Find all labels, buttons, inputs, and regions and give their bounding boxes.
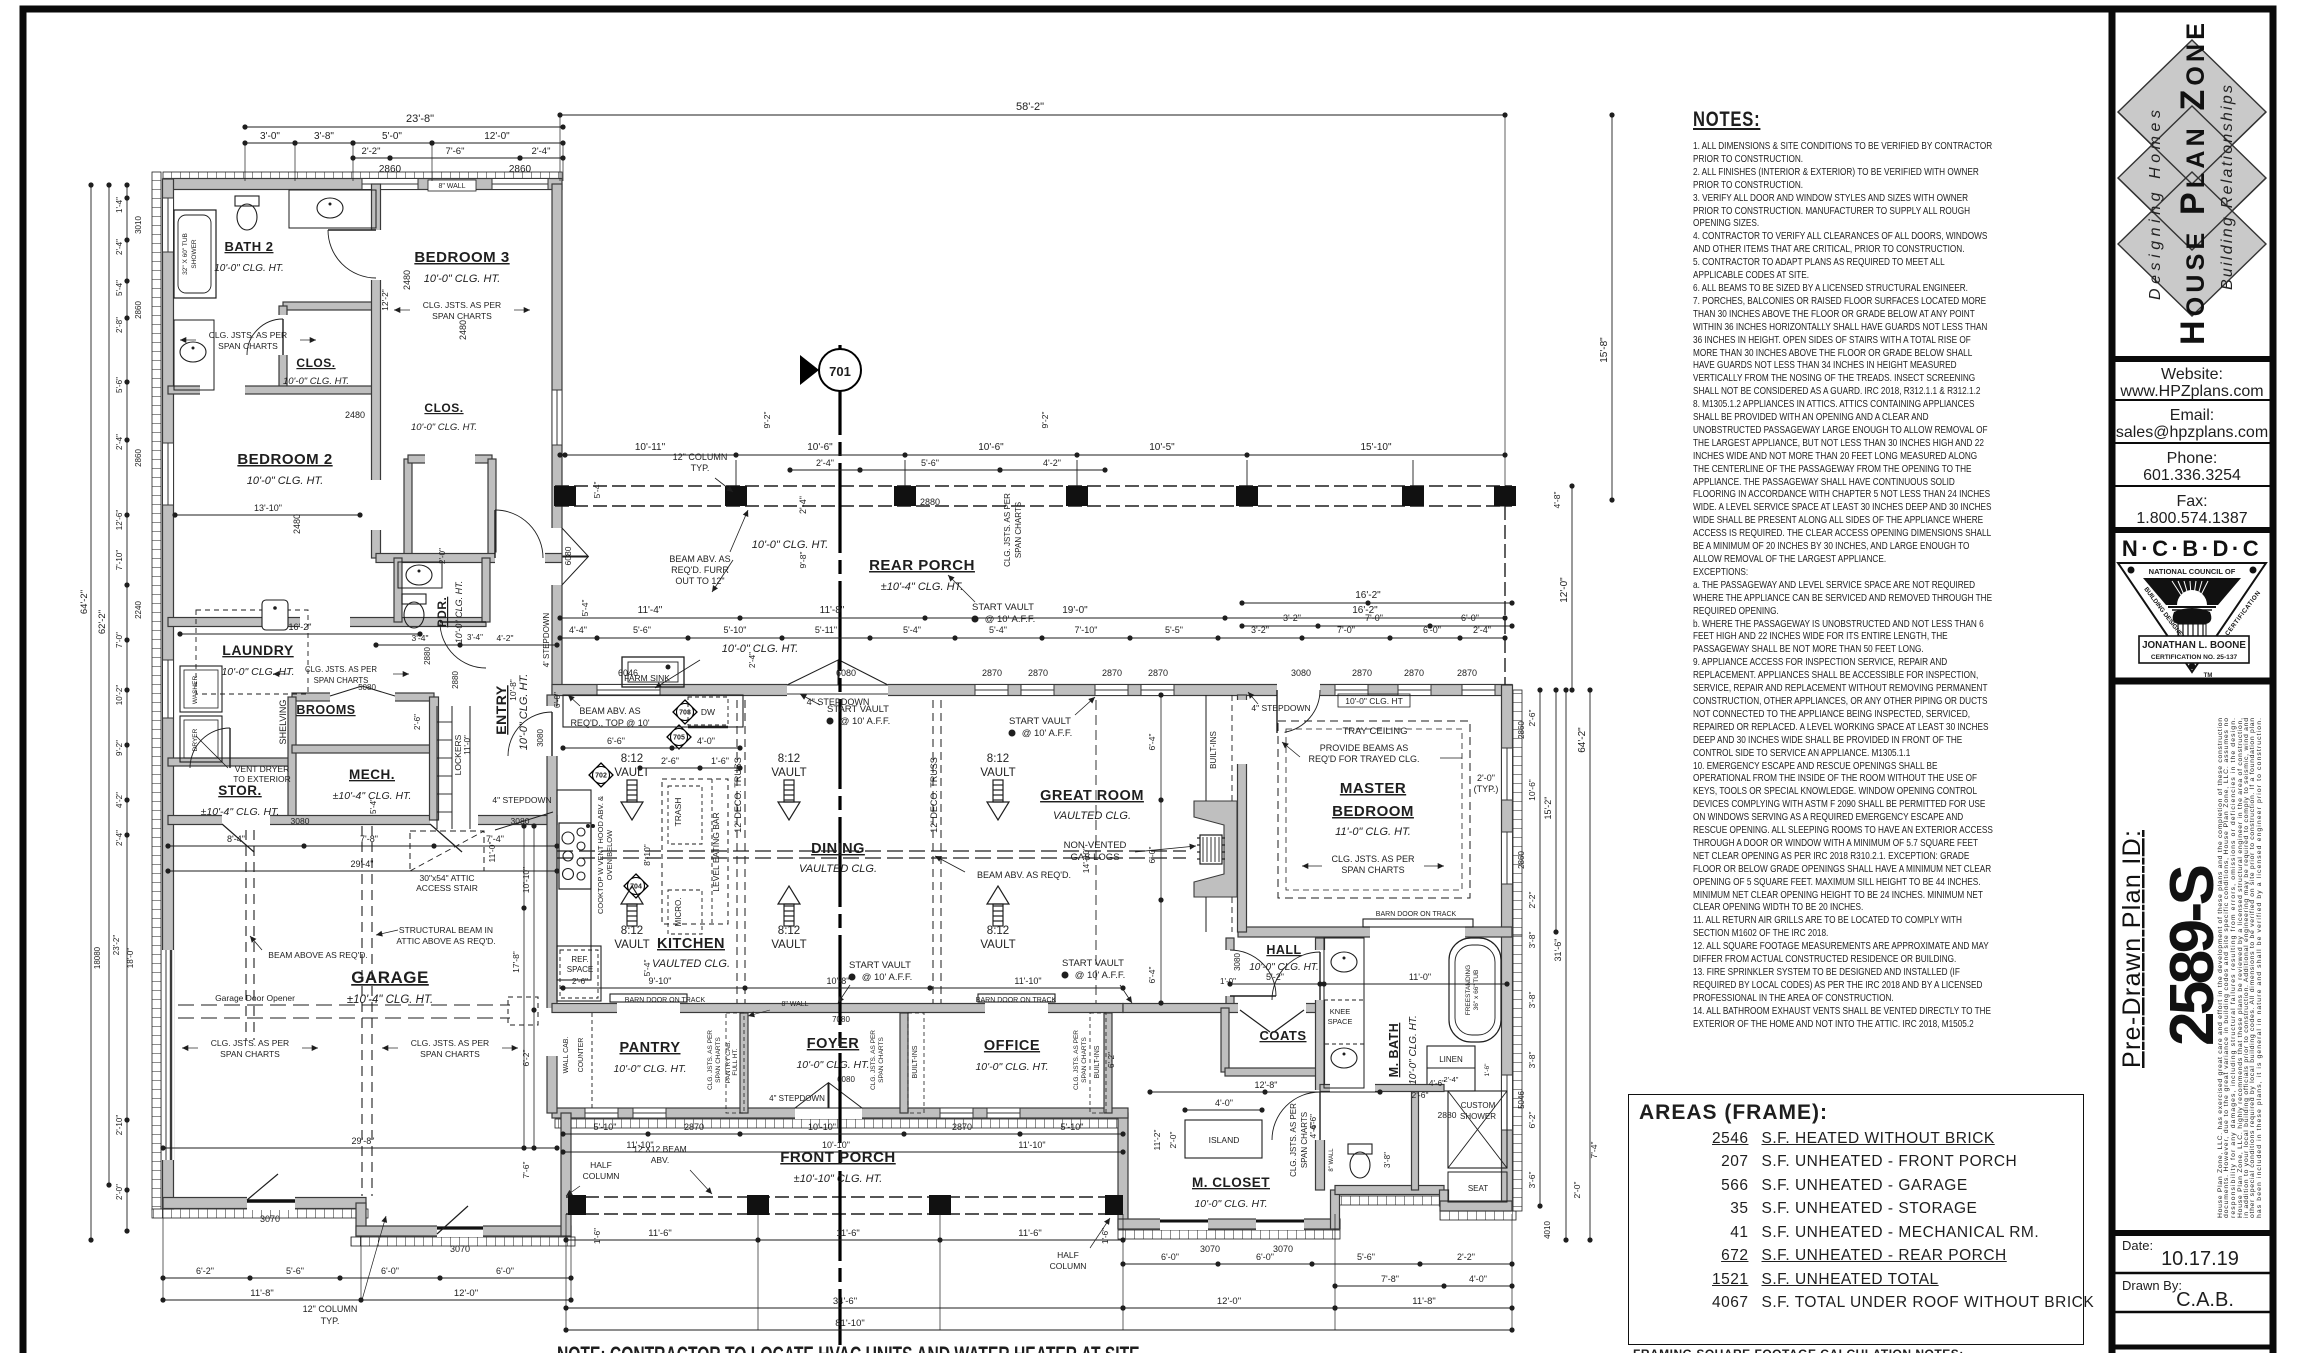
svg-text:10'-0" CLG. HT.: 10'-0" CLG. HT. (722, 643, 799, 655)
svg-text:START VAULT: START VAULT (827, 704, 889, 715)
svg-text:2860: 2860 (134, 449, 143, 467)
svg-text:7'-10": 7'-10" (115, 550, 124, 571)
brick veneer - north wall left wing (163, 172, 562, 181)
svg-text:SPAN CHARTS: SPAN CHARTS (878, 1037, 885, 1083)
door 5080 bifold peak (330, 686, 362, 696)
svg-text:Fax:: Fax: (2176, 493, 2207, 510)
garage door opening 18080 in west wall (162, 950, 174, 1160)
svg-text:5'-10": 5'-10" (724, 625, 747, 635)
svg-text:12'-0": 12'-0" (484, 131, 510, 142)
svg-text:8:12: 8:12 (778, 925, 800, 937)
svg-text:2'-6": 2'-6" (572, 977, 588, 986)
svg-text:10'-0" CLG. HT.: 10'-0" CLG. HT. (247, 475, 324, 487)
ncbdc column capital (2173, 608, 2212, 624)
svg-text:12'-0": 12'-0" (1559, 577, 1570, 603)
svg-text:±10'-10" CLG. HT.: ±10'-10" CLG. HT. (794, 1173, 883, 1185)
laundry counter dashed (196, 610, 308, 694)
svg-text:5'-4": 5'-4" (989, 625, 1007, 635)
svg-text:58'-2": 58'-2" (1016, 101, 1044, 113)
svg-text:10'-10": 10'-10" (822, 1140, 850, 1150)
svg-text:4" STEPDOWN: 4" STEPDOWN (1251, 703, 1310, 713)
svg-text:START VAULT: START VAULT (972, 602, 1034, 613)
coats double door opening (1238, 1003, 1306, 1014)
svg-text:HALF: HALF (590, 1160, 612, 1170)
svg-text:3070: 3070 (450, 1244, 470, 1254)
svg-text:ACCESS STAIR: ACCESS STAIR (416, 883, 478, 893)
svg-text:701: 701 (829, 364, 851, 379)
svg-text:2870: 2870 (1457, 668, 1477, 678)
svg-text:PANTRY CAB.: PANTRY CAB. (725, 1040, 732, 1083)
svg-text:Phone:: Phone: (2167, 450, 2218, 467)
door m.bath (1315, 950, 1326, 1000)
door swing master porch door (1285, 690, 1321, 732)
svg-text:KITCHEN: KITCHEN (657, 936, 725, 952)
svg-text:3080: 3080 (536, 729, 545, 747)
custom shower (1448, 1091, 1507, 1168)
interior wall - bedroom2 south / pdr north (168, 618, 486, 627)
window 2860 master east (1502, 832, 1513, 884)
sink m.bath north (1331, 952, 1357, 972)
svg-text:SPAN CHARTS: SPAN CHARTS (1014, 502, 1023, 558)
svg-text:9'-10": 9'-10" (649, 976, 672, 986)
dim 4'-0/3'-4 bedroom2 south (376, 644, 557, 646)
logo diamond bottom (2118, 172, 2266, 316)
half column right (1105, 1195, 1123, 1215)
svg-text:8:12: 8:12 (778, 753, 800, 765)
dim right master col (1539, 690, 1541, 1206)
dim 81'-10 row (566, 1329, 1512, 1331)
svg-text:2'-4": 2'-4" (532, 146, 551, 157)
detail marker 702 (589, 763, 613, 787)
svg-text:2870: 2870 (1352, 668, 1372, 678)
door bath2 closet (278, 315, 288, 355)
svg-text:PROVIDE BEAMS AS: PROVIDE BEAMS AS (1320, 743, 1409, 753)
vanity bath2 lower-left (174, 320, 214, 390)
interior wall - master south (1238, 927, 1512, 937)
dim great room rotated (1160, 695, 1162, 1003)
svg-text:2'-6": 2'-6" (1412, 1090, 1429, 1100)
window 2880 entry east (552, 390, 562, 445)
window 2870 pantry (585, 1108, 618, 1118)
dim right 15'-2 31'-6 (1555, 690, 1557, 932)
interior wall - clos2 north (408, 455, 492, 463)
svg-text:REAR PORCH: REAR PORCH (869, 557, 975, 574)
shower seat (1448, 1172, 1507, 1202)
svg-text:8'-10": 8'-10" (642, 844, 652, 866)
svg-text:11'-6": 11'-6" (648, 1228, 672, 1239)
svg-text:SPAN CHARTS: SPAN CHARTS (220, 1049, 280, 1059)
interior wall - foyer/office divider (900, 1013, 908, 1113)
svg-text:OVEN BELOW: OVEN BELOW (605, 829, 614, 880)
svg-text:11'-10": 11'-10" (1018, 1140, 1045, 1150)
svg-text:11'-6": 11'-6" (836, 1228, 860, 1239)
svg-text:2'-2": 2'-2" (1457, 1252, 1475, 1262)
svg-text:11'-0": 11'-0" (463, 735, 472, 755)
svg-text:5'-6": 5'-6" (286, 1266, 304, 1276)
svg-text:5'-10": 5'-10" (594, 1122, 617, 1132)
svg-text:10'-0" CLG. HT.: 10'-0" CLG. HT. (454, 581, 464, 644)
built-ins strip north of fireplace (1205, 695, 1207, 801)
door 3080 kitchen to entry (546, 706, 558, 756)
door clos2 (425, 454, 475, 464)
interior wall - master west (1238, 695, 1247, 932)
svg-text:2'-4": 2'-4" (798, 496, 808, 514)
svg-text:3'-8": 3'-8" (1527, 992, 1537, 1009)
svg-text:START VAULT: START VAULT (1062, 958, 1124, 969)
svg-text:2480: 2480 (292, 514, 302, 534)
svg-text:15'-2": 15'-2" (1543, 797, 1553, 820)
svg-text:M. CLOSET: M. CLOSET (1192, 1175, 1270, 1190)
svg-text:WALL CAB.: WALL CAB. (563, 1037, 570, 1074)
exterior wall - wing east (x=557) (552, 184, 562, 695)
svg-text:1'-0": 1'-0" (1220, 977, 1236, 986)
svg-text:BUILT-INS: BUILT-INS (1094, 1045, 1101, 1078)
interior wall - clos2 east (488, 459, 496, 558)
deco truss dining west (736, 700, 738, 1003)
interior wall - clos2 west (404, 459, 412, 558)
svg-text:3010: 3010 (134, 216, 143, 234)
svg-text:VAULT: VAULT (614, 767, 649, 779)
dim garage row 29'-8 (163, 1147, 557, 1149)
svg-text:SPAN CHARTS: SPAN CHARTS (1300, 1112, 1309, 1168)
svg-text:3'-8": 3'-8" (1383, 1152, 1392, 1168)
interior wall - bath2/bedroom2 (168, 386, 376, 394)
sink bath2 (317, 198, 343, 218)
svg-text:2860: 2860 (1517, 851, 1526, 869)
garage door opener dashed (178, 1004, 510, 1006)
svg-text:3080: 3080 (1233, 953, 1242, 971)
svg-text:CLG. JSTS. AS PER: CLG. JSTS. AS PER (411, 1038, 489, 1048)
ncbdc name box (2139, 636, 2249, 663)
svg-text:6'-4": 6'-4" (1147, 734, 1157, 751)
svg-text:Drawn By:: Drawn By: (2122, 1278, 2182, 1293)
section marker 701 (819, 349, 861, 391)
svg-text:3'-8": 3'-8" (314, 131, 334, 142)
svg-text:2'-6": 2'-6" (1527, 710, 1537, 727)
ncbdc corner dots (2128, 567, 2135, 574)
svg-text:sales@hpzplans.com: sales@hpzplans.com (2116, 424, 2268, 441)
svg-text:10'-0" CLG. HT.: 10'-0" CLG. HT. (518, 674, 530, 751)
svg-text:64'-2": 64'-2" (79, 590, 90, 614)
svg-text:CLG. JSTS. AS PER: CLG. JSTS. AS PER (1003, 493, 1012, 567)
door 3070 m.closet south 2 (1256, 1218, 1304, 1230)
svg-text:12'-2": 12'-2" (380, 289, 390, 311)
interior wall - kitchen/pantry barn wall (552, 1004, 1123, 1013)
svg-text:2'-0": 2'-0" (1168, 1132, 1178, 1149)
dim left outer 64'-2 (90, 185, 92, 1240)
svg-text:81'-10": 81'-10" (835, 1318, 864, 1329)
window 2870 great room (1021, 685, 1054, 696)
svg-text:3'-2": 3'-2" (1251, 625, 1269, 635)
svg-text:34'-6": 34'-6" (833, 1296, 857, 1307)
window 6046 farm sink (597, 685, 660, 696)
svg-text:BARN DOOR ON TRACK: BARN DOOR ON TRACK (1376, 911, 1457, 918)
svg-text:2'-4": 2'-4" (1473, 625, 1491, 635)
svg-text:2870: 2870 (982, 668, 1002, 678)
brick veneer - front wall pantry/foyer/office (555, 1119, 1123, 1128)
svg-text:2'-2": 2'-2" (1527, 892, 1537, 909)
svg-text:VENT DRYER: VENT DRYER (235, 764, 289, 774)
toilet m.bath (1348, 1144, 1372, 1178)
svg-text:BEAM ABOVE AS REQ'D.: BEAM ABOVE AS REQ'D. (268, 950, 367, 960)
svg-text:LAUNDRY: LAUNDRY (222, 642, 294, 658)
svg-text:9'-8": 9'-8" (798, 552, 808, 569)
dim top sub-row 2 (353, 157, 390, 159)
svg-text:FOYER: FOYER (807, 1036, 859, 1052)
interior wall - bath2 south upper (283, 302, 376, 310)
brick veneer - master east wall (1513, 690, 1522, 935)
svg-text:CERTIFICATION NO. 25-137: CERTIFICATION NO. 25-137 (2151, 654, 2238, 661)
door swing bath2 hall (328, 230, 376, 278)
svg-text:8" WALL: 8" WALL (781, 1001, 808, 1008)
svg-text:2880: 2880 (920, 497, 940, 507)
svg-text:1'-6": 1'-6" (593, 1228, 602, 1244)
svg-text:SHELVING: SHELVING (278, 700, 288, 745)
detail marker 704 (624, 874, 648, 898)
dim laundry (180, 633, 420, 635)
title block divider (plan area / sidebar) (2109, 9, 2116, 1353)
svg-text:SEAT: SEAT (1468, 1184, 1488, 1193)
svg-text:12" COLUMN: 12" COLUMN (673, 452, 728, 462)
front porch column (929, 1195, 951, 1215)
svg-text:2860: 2860 (134, 301, 143, 319)
svg-text:10'-10": 10'-10" (521, 867, 531, 893)
kitchen counter north (563, 695, 743, 727)
svg-text:responsibility for any damages: responsibility for any damages, includin… (2230, 718, 2237, 1218)
svg-text:REQ'D. FURR: REQ'D. FURR (671, 565, 729, 575)
dim 58'-2 top (560, 114, 1505, 116)
svg-text:10'-8": 10'-8" (508, 679, 518, 701)
svg-text:BEDROOM: BEDROOM (1332, 803, 1414, 820)
svg-text:1'-6": 1'-6" (1101, 1228, 1110, 1244)
svg-text:10'-10": 10'-10" (808, 1122, 836, 1132)
tray ceiling dashed outer (1278, 721, 1470, 898)
svg-text:4'-2": 4'-2" (1043, 458, 1061, 468)
front porch column (747, 1195, 769, 1215)
svg-text:11'-0": 11'-0" (487, 841, 497, 862)
gas log insert (1200, 835, 1222, 864)
svg-text:11'-8": 11'-8" (250, 1288, 274, 1299)
great room cross dashed vertical (1095, 700, 1097, 1003)
lockers strip (436, 706, 438, 829)
ncbdc horizon lines (2168, 606, 2216, 608)
window 2860 master east (1502, 748, 1513, 800)
svg-text:5'-10": 5'-10" (1061, 1122, 1084, 1132)
svg-text:5'-6": 5'-6" (633, 625, 651, 635)
vault arrow down dining (778, 780, 800, 820)
svg-text:12'-8": 12'-8" (1255, 1080, 1278, 1090)
svg-text:36" x 66" TUB: 36" x 66" TUB (1473, 970, 1480, 1011)
svg-text:BUILT-INS: BUILT-INS (1209, 731, 1218, 769)
svg-text:2870: 2870 (684, 1122, 704, 1132)
svg-text:REQ'D FOR TRAYED CLG.: REQ'D FOR TRAYED CLG. (1309, 754, 1420, 764)
svg-text:OFFICE: OFFICE (984, 1038, 1040, 1054)
svg-text:BEAM ABV. AS: BEAM ABV. AS (669, 554, 730, 564)
svg-text:TYP.: TYP. (691, 463, 710, 473)
door 3070 m.closet south (1160, 1218, 1208, 1230)
door 6080 dining to porch (787, 684, 888, 697)
svg-text:LINEN: LINEN (1439, 1055, 1463, 1064)
svg-text:18'-0": 18'-0" (126, 948, 135, 969)
ncbdc column shaft (2178, 624, 2206, 658)
interior wall - bath fixtures partition (1412, 1088, 1419, 1190)
svg-text:10'-0" CLG. HT.: 10'-0" CLG. HT. (975, 1061, 1048, 1073)
door swing bedroom3 (495, 510, 543, 558)
svg-text:COATS: COATS (1259, 1028, 1306, 1043)
svg-text:6'-2": 6'-2" (1527, 1112, 1537, 1129)
door swing m.closet-bath (1272, 1092, 1320, 1140)
porch column (894, 486, 916, 506)
svg-text:VAULT: VAULT (771, 939, 806, 951)
svg-text:2480: 2480 (458, 320, 468, 340)
built-ins strip south of fireplace (1205, 897, 1207, 932)
dim rear porch top row (560, 454, 1505, 456)
svg-text:REQ'D., TOP @ 10': REQ'D., TOP @ 10' (570, 718, 649, 728)
svg-text:9'-2": 9'-2" (762, 412, 772, 429)
svg-text:SHOWER: SHOWER (191, 239, 198, 269)
svg-text:CLG. JSTS. AS PER: CLG. JSTS. AS PER (1331, 854, 1415, 864)
svg-text:Email:: Email: (2170, 407, 2214, 424)
window m.bath east (1502, 1075, 1513, 1130)
fireplace masonry (1194, 801, 1237, 897)
svg-text:5'-4": 5'-4" (115, 280, 124, 296)
svg-text:±10'-4" CLG. HT.: ±10'-4" CLG. HT. (201, 806, 280, 818)
svg-text:2'-4": 2'-4" (1444, 1075, 1459, 1084)
svg-text:HALF: HALF (1057, 1250, 1079, 1260)
dim pantry window row (563, 1151, 1123, 1153)
svg-text:7'-8": 7'-8" (360, 834, 378, 844)
areas frame box (1628, 1094, 2084, 1345)
dim mcloset rows (1150, 1091, 1380, 1093)
dim rear porch inner row (560, 617, 1505, 619)
svg-text:2'-0": 2'-0" (1572, 1182, 1582, 1199)
window 2870 great room (1095, 685, 1128, 696)
svg-text:1'-6": 1'-6" (1484, 1063, 1491, 1077)
exterior wall - m.closet south (1118, 1219, 1340, 1229)
interior wall - hall west (1226, 938, 1234, 1008)
svg-text:@ 10' A.F.F.: @ 10' A.F.F. (985, 614, 1036, 625)
svg-text:10'-0" CLG. HT.: 10'-0" CLG. HT. (796, 1059, 869, 1071)
svg-text:3'-2": 3'-2" (1283, 613, 1301, 623)
kitchen island dashed (662, 779, 728, 924)
svg-text:10'-0" CLG. HT.: 10'-0" CLG. HT. (1249, 962, 1319, 973)
svg-text:5'-4": 5'-4" (903, 625, 921, 635)
interior wall - office east (1104, 1013, 1112, 1113)
exterior wall - vestibule south (356, 1226, 571, 1236)
door m.closet-bath (1315, 1090, 1326, 1140)
svg-text:DW: DW (701, 707, 715, 717)
door swing bath2 closet (247, 319, 283, 355)
logo diamond middle (2118, 106, 2266, 250)
svg-text:ABV.: ABV. (651, 1155, 670, 1165)
linen shelf line (1427, 1067, 1475, 1069)
svg-text:Building Relationships: Building Relationships (2219, 85, 2236, 290)
svg-text:CLG. JSTS. AS PER: CLG. JSTS. AS PER (423, 300, 501, 310)
garage side door 3070 (247, 1196, 295, 1210)
svg-text:3080: 3080 (1291, 668, 1311, 678)
svg-text:11'-8": 11'-8" (1412, 1296, 1436, 1307)
svg-text:6'-2": 6'-2" (1107, 1052, 1116, 1068)
separator below drawn by (2112, 1311, 2273, 1314)
svg-text:COLUMN: COLUMN (1050, 1261, 1087, 1271)
dim mcloset bottom rows (1123, 1263, 1512, 1265)
svg-text:702: 702 (595, 773, 607, 780)
svg-text:MASTER: MASTER (1340, 780, 1406, 797)
svg-text:10'-6": 10'-6" (978, 442, 1004, 453)
ncbdc box bottom separator (2112, 678, 2273, 685)
dim 34'-6 row (566, 1307, 1123, 1309)
svg-text:COOKTOP W VENT HOOD ABV. &: COOKTOP W VENT HOOD ABV. & (596, 796, 605, 914)
full ht pantry cab label (726, 1013, 744, 1113)
svg-text:6'-2": 6'-2" (196, 1266, 214, 1276)
svg-text:10'-6": 10'-6" (807, 442, 833, 453)
svg-text:8:12: 8:12 (621, 925, 643, 937)
svg-text:BEAM ABV. AS REQ'D.: BEAM ABV. AS REQ'D. (977, 870, 1071, 880)
cooktop burners (559, 823, 591, 889)
vault arrow down great room (987, 780, 1009, 820)
farm sink (622, 657, 684, 687)
window 2870 master (1335, 685, 1368, 696)
svg-text:2480: 2480 (345, 410, 365, 420)
laundry sink (262, 600, 288, 630)
svg-text:31'-6": 31'-6" (1553, 939, 1563, 962)
interior wall - garage east / kitchen west (547, 695, 557, 1113)
interior wall - m.bath west (1316, 938, 1325, 1190)
svg-text:5'-6": 5'-6" (115, 377, 124, 393)
svg-text:10'-0" CLG. HT: 10'-0" CLG. HT (1345, 696, 1403, 706)
detail marker 705 (667, 725, 691, 749)
svg-text:6'-2": 6'-2" (521, 1050, 531, 1067)
svg-text:4' STEPDOWN: 4' STEPDOWN (542, 613, 551, 668)
dim center vertical pair (523, 826, 525, 1148)
svg-text:4" STEPDOWN: 4" STEPDOWN (492, 795, 551, 805)
door swing pdr (440, 624, 486, 668)
island m.closet (1185, 1120, 1262, 1158)
dim kitchen bottom row (563, 987, 1123, 989)
notes heading and body (1693, 108, 1993, 1032)
exterior wall - shower block (1440, 1190, 1449, 1206)
svg-text:3'-8": 3'-8" (1527, 1052, 1537, 1069)
svg-text:6046: 6046 (618, 668, 638, 678)
logo diamond top (2118, 40, 2266, 184)
svg-text:MICRO.: MICRO. (674, 898, 683, 927)
svg-text:BARN DOOR ON TRACK: BARN DOOR ON TRACK (625, 997, 706, 1004)
svg-text:CLOS.: CLOS. (296, 356, 335, 370)
window 3010 bath2 west (163, 198, 174, 252)
svg-text:COLUMN: COLUMN (583, 1171, 620, 1181)
svg-text:www.HPZplans.com: www.HPZplans.com (2119, 383, 2263, 400)
svg-text:CLG. JSTS. AS PER: CLG. JSTS. AS PER (211, 1038, 289, 1048)
front door 3070 vestibule (437, 1225, 483, 1237)
vault arrow up dining (778, 886, 800, 926)
svg-text:12'-0": 12'-0" (1217, 1296, 1241, 1307)
dim hall row (1230, 983, 1320, 985)
brick veneer - toilet room south wall (1336, 1196, 1444, 1205)
door bedroom3 (371, 480, 382, 530)
svg-text:6'-0": 6'-0" (1256, 1252, 1274, 1262)
svg-text:15'-8": 15'-8" (1599, 337, 1610, 363)
dim left segment column (126, 185, 128, 1231)
svg-text:LOCKERS: LOCKERS (453, 734, 463, 775)
svg-text:2870: 2870 (1028, 668, 1048, 678)
interior wall - mech east (430, 697, 439, 820)
svg-text:VAULT: VAULT (980, 767, 1015, 779)
svg-text:VAULT: VAULT (980, 939, 1015, 951)
svg-text:ISLAND: ISLAND (1209, 1135, 1240, 1145)
exterior wall - garage south (163, 1198, 366, 1209)
svg-text:5'-4": 5'-4" (369, 798, 378, 814)
contact separators (2112, 399, 2273, 401)
